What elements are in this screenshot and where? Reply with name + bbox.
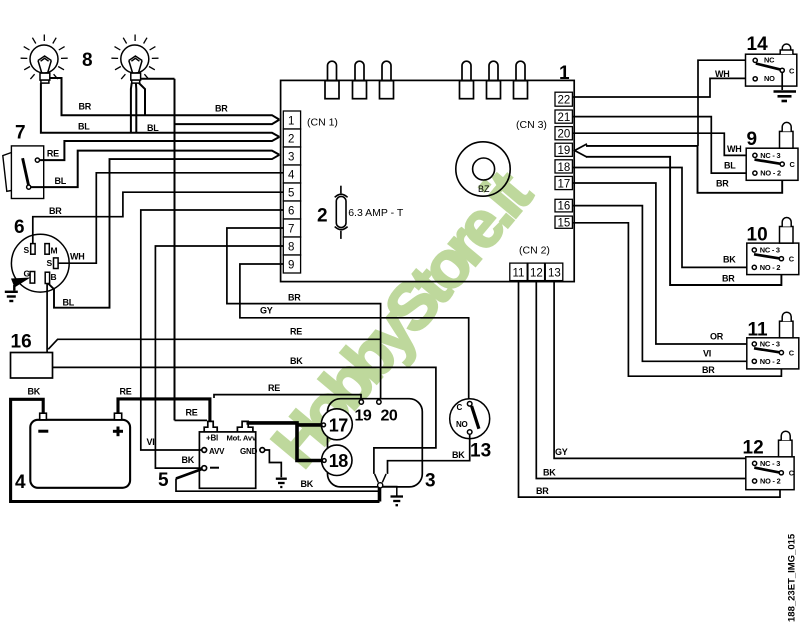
wire lamp2 right to pin1 <box>141 78 175 80</box>
svg-text:RE: RE <box>47 149 59 159</box>
14 NC wire down <box>698 60 752 146</box>
svg-text:BL: BL <box>724 161 736 171</box>
svg-text:(CN 3): (CN 3) <box>516 119 547 131</box>
wire RE switch7 to pin2, bottom line of arrow <box>40 137 280 160</box>
pin19 bottom line to BR 10 <box>586 157 781 285</box>
svg-text:C: C <box>457 403 463 412</box>
svg-text:11: 11 <box>748 319 769 340</box>
svg-text:NO: NO <box>456 420 467 429</box>
svg-text:1: 1 <box>288 116 294 128</box>
svg-text:BL: BL <box>55 176 67 186</box>
svg-text:7: 7 <box>288 224 294 236</box>
svg-text:(CN 1): (CN 1) <box>307 117 338 129</box>
buzzer BZ <box>456 142 510 196</box>
svg-text:AVV: AVV <box>209 447 225 456</box>
svg-text:BR: BR <box>79 102 92 112</box>
svg-text:BK: BK <box>452 450 465 460</box>
svg-text:WH: WH <box>715 69 729 79</box>
pin16 to 11 NO-2 <box>572 206 751 362</box>
pin20 to 9 NC-3 <box>572 133 752 155</box>
svg-text:19: 19 <box>558 145 571 157</box>
svg-text:BL: BL <box>78 122 90 132</box>
svg-text:6.3 AMP - T: 6.3 AMP - T <box>348 207 404 219</box>
svg-text:9: 9 <box>288 260 294 272</box>
wire BR key6-S to pin5 <box>33 192 283 243</box>
svg-text:12: 12 <box>530 268 543 280</box>
svg-text:RE: RE <box>290 327 302 337</box>
svg-text:S: S <box>47 258 53 268</box>
svg-text:1: 1 <box>559 63 570 84</box>
connector tab T2 <box>353 61 367 99</box>
wire thin RE to contact 19 <box>214 395 361 399</box>
ground below 14 <box>781 72 783 90</box>
relay 5 lever and wire down <box>176 469 202 479</box>
wire key6-B down to box16 <box>46 283 48 352</box>
svg-text:6: 6 <box>288 206 294 218</box>
wire pin7 down <box>227 228 381 399</box>
svg-text:NO - 2: NO - 2 <box>760 263 781 272</box>
svg-text:NC - 3: NC - 3 <box>760 151 780 160</box>
pin19 top line to BR 9 <box>586 146 782 193</box>
pin19 arrow <box>575 144 587 157</box>
lamp L2 <box>111 35 158 84</box>
svg-text:GY: GY <box>555 447 568 457</box>
svg-text:NO - 2: NO - 2 <box>760 169 781 178</box>
svg-text:BR: BR <box>702 365 715 375</box>
connector tab T4 <box>460 61 474 99</box>
CN1 pin boxes <box>283 111 300 273</box>
svg-text:C: C <box>789 255 795 264</box>
svg-text:NO - 2: NO - 2 <box>760 477 781 486</box>
svg-text:8: 8 <box>82 50 93 71</box>
svg-text:BK: BK <box>543 468 556 478</box>
wire BL key6-B to pin3, bottom line of arrow <box>48 155 279 308</box>
svg-text:12: 12 <box>743 437 764 458</box>
svg-text:11: 11 <box>513 268 525 280</box>
fuse F2 <box>335 186 348 239</box>
pin18 to 10 NO-2 <box>572 168 751 268</box>
microswitch 14 <box>746 44 797 86</box>
thick RE battery cable <box>118 399 210 422</box>
ground at engine <box>391 497 404 506</box>
svg-text:6: 6 <box>14 217 25 238</box>
svg-text:13: 13 <box>548 268 561 280</box>
contacts 19 20 <box>359 400 363 404</box>
svg-text:GY: GY <box>260 306 273 316</box>
svg-text:188_23ET_IMG_015: 188_23ET_IMG_015 <box>787 533 798 622</box>
svg-text:G: G <box>24 269 31 279</box>
CN2 pin boxes <box>510 263 563 281</box>
svg-text:C: C <box>789 66 795 75</box>
svg-text:16: 16 <box>11 332 32 353</box>
ground at key 6 <box>5 285 18 301</box>
svg-text:(CN 2): (CN 2) <box>519 245 550 257</box>
svg-text:B: B <box>51 272 57 282</box>
svg-text:4: 4 <box>15 472 26 493</box>
svg-text:7: 7 <box>15 123 26 144</box>
svg-text:17: 17 <box>558 178 571 190</box>
svg-text:NC: NC <box>764 56 775 65</box>
svg-text:13: 13 <box>470 441 491 462</box>
svg-text:16: 16 <box>558 201 571 213</box>
svg-text:17: 17 <box>329 415 349 435</box>
pin17 to 11 NC-3 <box>572 183 751 344</box>
wire CN2-12 BK to 12 NO-2 <box>536 281 752 479</box>
svg-text:WH: WH <box>727 144 741 154</box>
svg-text:GND: GND <box>240 447 258 456</box>
wire CN2-11 BR to 12 C <box>519 281 781 498</box>
svg-text:RE: RE <box>268 383 280 393</box>
svg-text:5: 5 <box>288 188 294 200</box>
wire 13 NO down-left BK <box>388 435 470 474</box>
switch 7 <box>3 146 44 199</box>
svg-text:14: 14 <box>747 34 769 55</box>
svg-text:10: 10 <box>747 225 768 246</box>
wire BL switch7 to pin3, top line of arrow <box>31 151 280 188</box>
svg-text:BR: BR <box>215 104 228 114</box>
svg-text:OR: OR <box>710 332 724 342</box>
connector tab T1 <box>325 61 339 99</box>
engine box 3 <box>328 399 423 487</box>
wire CN2-13 GY to 12 NC-3 <box>554 281 753 462</box>
svg-text:RE: RE <box>120 386 132 396</box>
svg-text:BK: BK <box>301 479 314 489</box>
pin15 to 11 C BR <box>572 223 781 376</box>
svg-text:C: C <box>789 349 795 358</box>
svg-text:21: 21 <box>558 112 571 124</box>
thick wire MotAvv to 17 and 18 <box>247 421 323 460</box>
svg-text:BK: BK <box>290 356 303 366</box>
microswitch 9 <box>746 122 798 180</box>
svg-text:BR: BR <box>716 179 729 189</box>
wire pin8 down to minus <box>155 246 283 468</box>
svg-text:18: 18 <box>329 451 349 471</box>
svg-text:BL: BL <box>63 298 75 308</box>
microswitch 12 <box>746 431 794 489</box>
svg-text:BK: BK <box>182 455 195 465</box>
wire lamp2 legs <box>130 83 133 133</box>
pin21 to 9 NO-2 <box>572 117 752 174</box>
starter relay 5 <box>199 421 264 488</box>
wire funnel to ground <box>383 487 397 496</box>
svg-text:S: S <box>24 245 30 255</box>
svg-text:BL: BL <box>147 123 159 133</box>
svg-text:19: 19 <box>355 408 372 425</box>
svg-text:18: 18 <box>558 162 571 174</box>
ground at GND <box>276 479 287 487</box>
svg-text:BR: BR <box>288 293 301 303</box>
wire RE from 16 top <box>48 339 380 349</box>
svg-text:WH: WH <box>70 252 84 262</box>
svg-text:NO: NO <box>764 74 775 83</box>
microswitch 10 <box>747 218 799 275</box>
svg-text:VI: VI <box>703 349 711 359</box>
svg-text:RE: RE <box>186 408 198 418</box>
connector tab T3 <box>380 61 394 99</box>
key 6 pointer arrow <box>11 278 31 288</box>
key switch 6 <box>11 234 69 292</box>
box 16 <box>11 353 53 379</box>
svg-text:3: 3 <box>425 471 436 492</box>
microswitch 11 <box>747 312 799 369</box>
svg-text:C: C <box>789 469 795 478</box>
CN3 pin boxes <box>555 92 572 228</box>
svg-text:8: 8 <box>288 242 294 254</box>
svg-text:BK: BK <box>723 255 736 265</box>
lamp L1 <box>21 35 68 84</box>
svg-text:20: 20 <box>381 408 398 425</box>
thick BK battery cable <box>11 399 380 501</box>
svg-text:C: C <box>790 160 796 169</box>
svg-text:9: 9 <box>747 129 758 150</box>
connector tab T5 <box>487 61 501 99</box>
circle 18 <box>322 445 352 475</box>
svg-text:NC - 3: NC - 3 <box>760 246 780 255</box>
svg-text:2: 2 <box>288 134 294 146</box>
wire lamp1 BR down-right, top line of pin1 arrow <box>50 78 280 120</box>
svg-text:BK: BK <box>28 386 41 396</box>
spark plug funnel <box>375 474 387 483</box>
wire GND to ground <box>265 450 281 477</box>
wire pin6 down to AVV <box>141 210 283 450</box>
battery minus sign <box>38 430 48 433</box>
svg-text:22: 22 <box>558 95 571 107</box>
svg-text:15: 15 <box>558 217 571 229</box>
svg-text:3: 3 <box>288 152 294 164</box>
svg-text:BR: BR <box>536 486 549 496</box>
svg-text:4: 4 <box>288 170 295 182</box>
svg-text:BR: BR <box>49 206 62 216</box>
main control box 1 <box>281 80 575 281</box>
svg-text:2: 2 <box>317 206 328 227</box>
svg-text:NC - 3: NC - 3 <box>760 459 780 468</box>
wires: lamps to CN1 <box>41 78 280 420</box>
svg-text:NC - 3: NC - 3 <box>760 340 780 349</box>
switch 13 <box>450 399 490 439</box>
battery 4 <box>30 413 130 488</box>
wire pin1 bottom line, arrow <box>175 120 280 125</box>
svg-text:5: 5 <box>158 470 169 491</box>
svg-text:VI: VI <box>147 437 155 447</box>
svg-text:BR: BR <box>722 274 735 284</box>
wire thin RE to +Bl <box>175 419 208 421</box>
svg-text:M: M <box>51 245 58 255</box>
svg-text:BZ: BZ <box>478 184 490 194</box>
svg-text:NO - 2: NO - 2 <box>760 357 781 366</box>
svg-text:+Bl: +Bl <box>206 434 218 443</box>
wire long vertical x=174.5 <box>174 79 176 421</box>
wire lamp1 BL down-right, top line of pin2 arrow <box>41 83 280 137</box>
pin22 to 14 NO <box>572 78 749 97</box>
circle 17 <box>321 409 352 440</box>
wire BK from 16 right <box>53 367 436 474</box>
connector tab T6 <box>514 61 528 99</box>
svg-text:Mot. Avv: Mot. Avv <box>227 434 257 443</box>
wire pin9 down GY to 13C <box>240 264 469 401</box>
wire WH key6 to pin4 <box>58 173 283 263</box>
svg-text:20: 20 <box>558 129 571 141</box>
battery plus sign <box>113 427 123 437</box>
